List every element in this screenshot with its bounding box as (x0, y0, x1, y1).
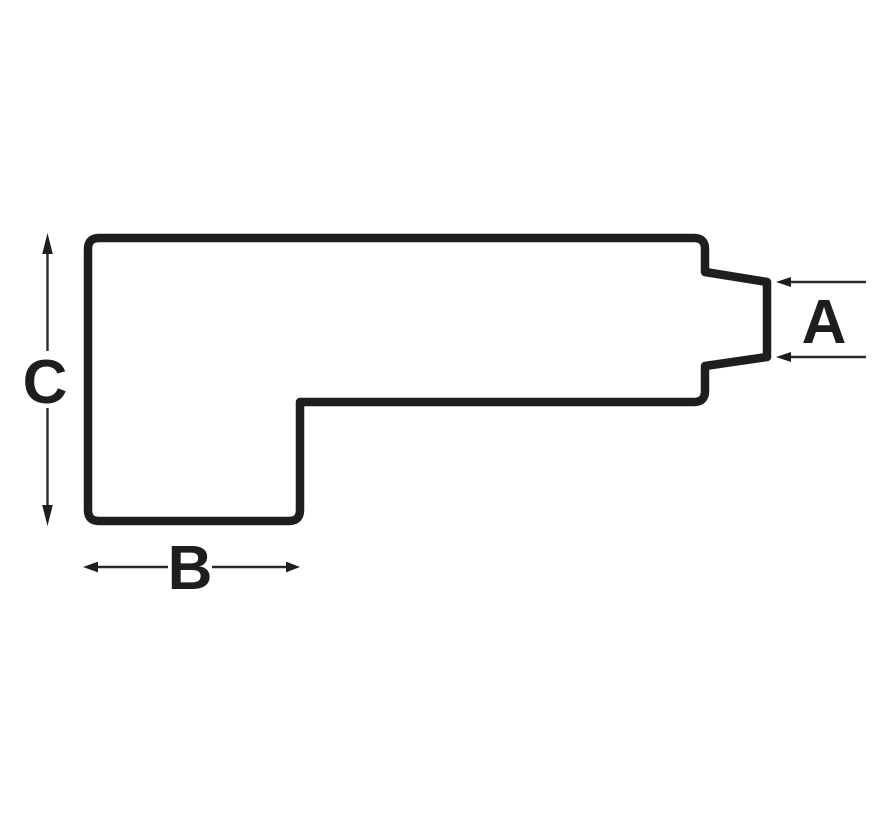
dimension A line top (789, 281, 866, 283)
svg-text:A: A (802, 288, 847, 357)
dimension A arrow bottom (776, 352, 791, 362)
profile outline (88, 238, 767, 521)
dimension A arrow top (776, 277, 791, 287)
dimension A line bottom (789, 356, 866, 358)
dimension C line upper (46, 252, 48, 351)
svg-text:B: B (168, 534, 213, 603)
svg-text:C: C (23, 348, 68, 417)
dimension B line right (212, 566, 288, 568)
dimension C line lower (46, 408, 48, 508)
dimension B arrow right (286, 562, 300, 573)
dimension B line left (96, 566, 168, 568)
dimension B arrow left (83, 562, 98, 573)
dimension C arrow down (42, 505, 53, 526)
dimension C arrow up (42, 233, 53, 254)
